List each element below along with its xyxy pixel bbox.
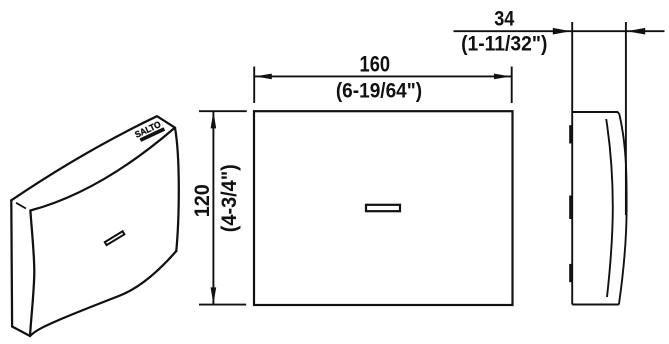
svg-text:160: 160 <box>360 51 391 76</box>
svg-text:120: 120 <box>190 184 214 217</box>
svg-text:(1-11/32"): (1-11/32") <box>461 32 547 56</box>
svg-text:34: 34 <box>494 6 514 30</box>
svg-text:(4-3/4"): (4-3/4") <box>217 164 241 232</box>
svg-text:(6-19/64"): (6-19/64") <box>336 78 422 103</box>
